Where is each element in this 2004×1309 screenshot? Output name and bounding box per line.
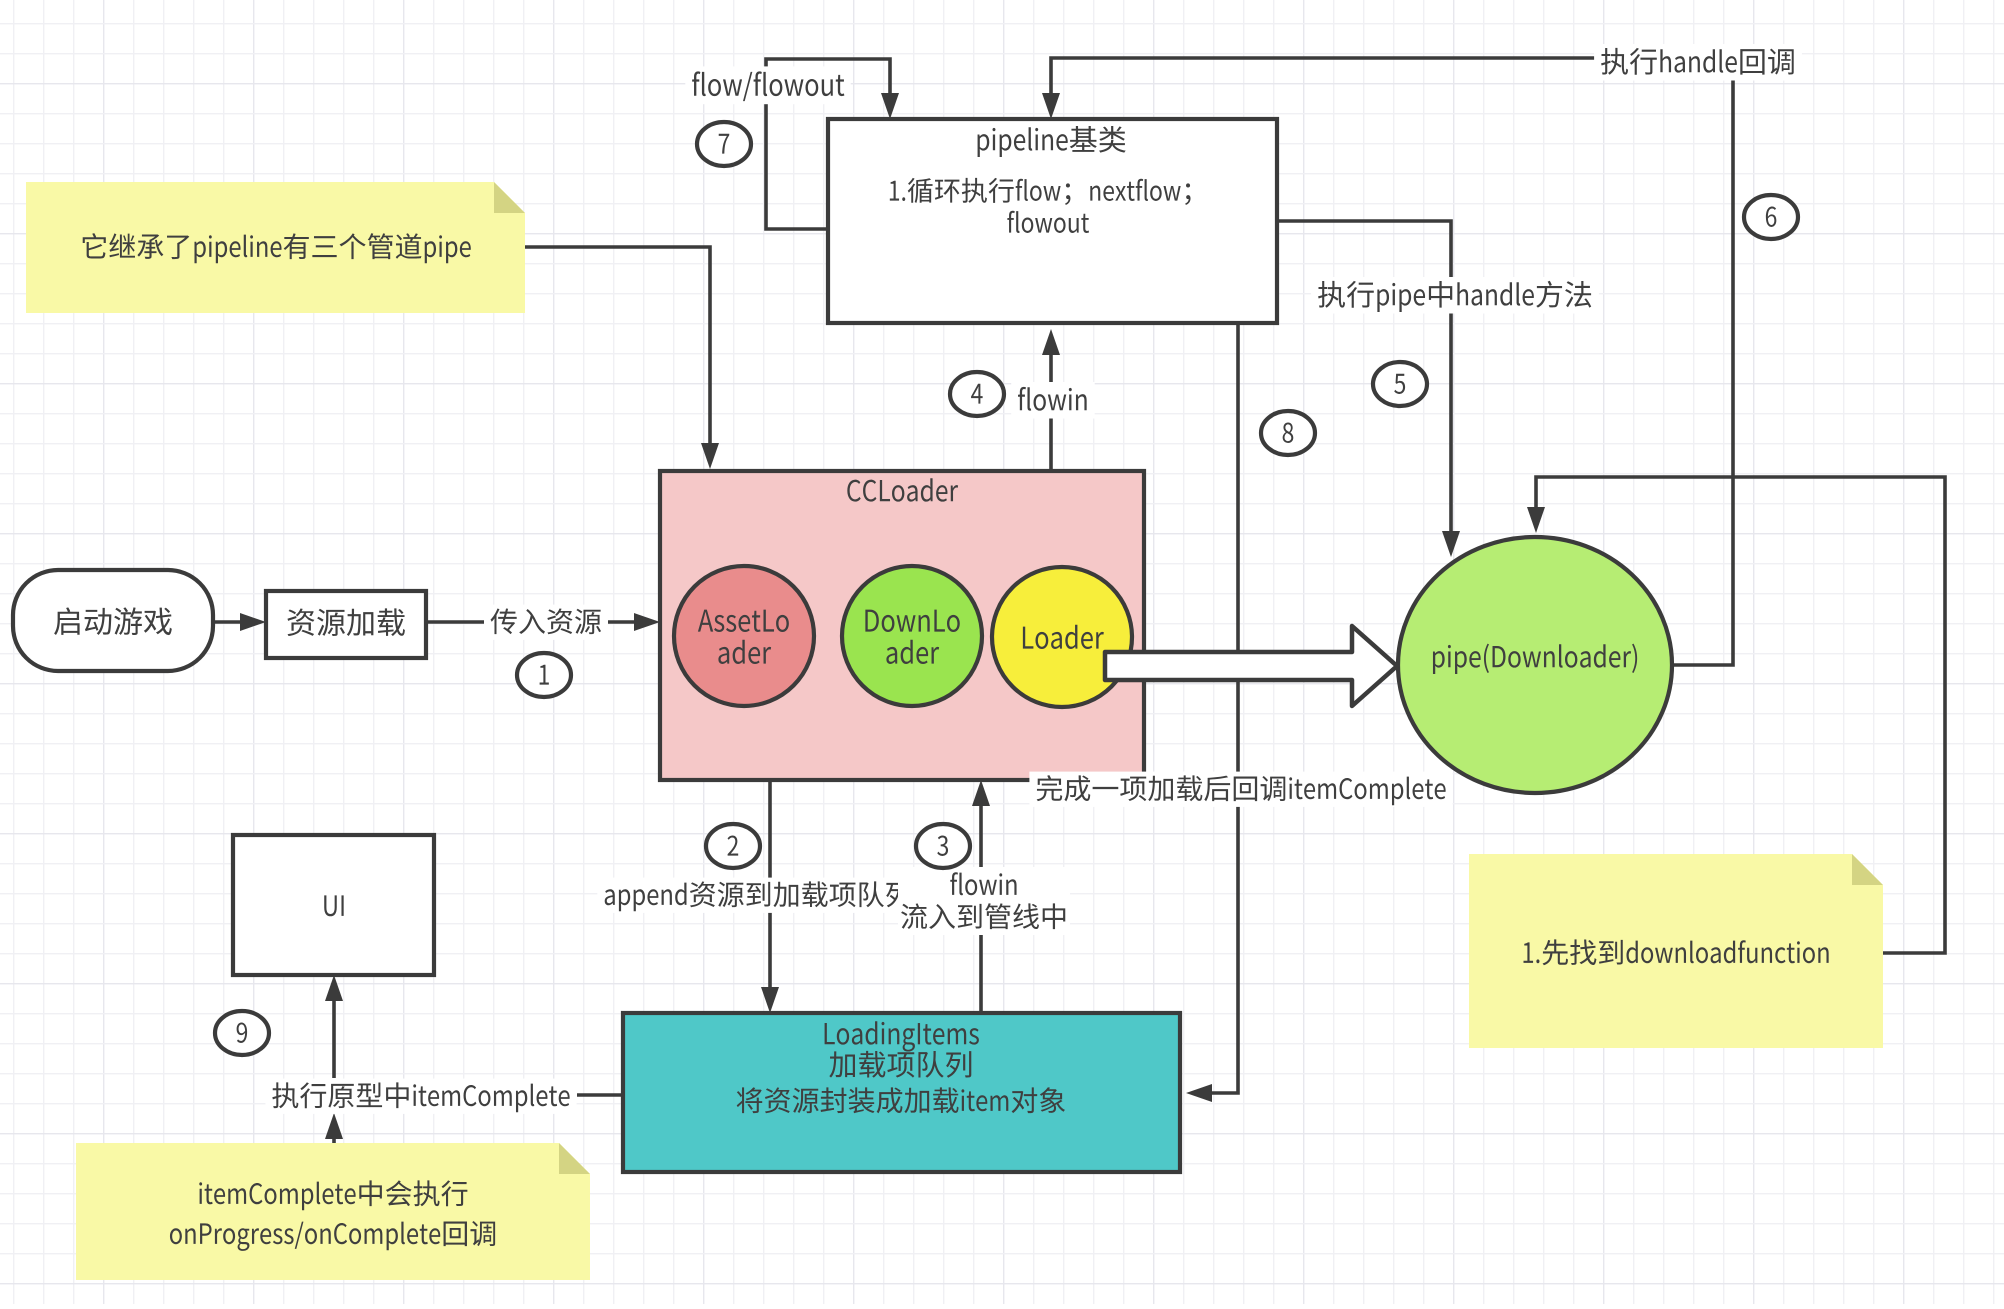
wire: label to LoadingItems left (577, 1093, 623, 1097)
label 完成一项加载后回调itemComplete (1029, 772, 1452, 807)
note3 1.先找到downloadfunction (1469, 854, 1883, 1048)
wire: note1 to CCLoader top (525, 247, 710, 449)
box CCLoader (660, 471, 1144, 780)
box LoadingItems (623, 1013, 1180, 1172)
label 传入资源 (484, 605, 608, 640)
box UI (233, 835, 434, 975)
circle pipe(Downloader) (1398, 537, 1672, 793)
box pipeline基类 (828, 119, 1277, 323)
label flowin (4) (1011, 382, 1094, 419)
node step 6 (1744, 195, 1798, 239)
label flow/flowout (685, 66, 850, 104)
wire: flowin CCLoader to pipeline (4) (1049, 349, 1053, 471)
node step 5 (1373, 362, 1427, 406)
wire: note2 to label (9) lower segment (332, 1133, 336, 1143)
node step 4 (950, 372, 1004, 416)
node step 8 (1261, 411, 1315, 455)
node step 2 (706, 824, 760, 868)
note2 itemComplete中会执行... (76, 1143, 590, 1280)
wire: 执行原型中itemComplete to UI (9) upper segment (332, 995, 336, 1078)
wire: flow/flowout loop (7) (766, 59, 890, 229)
wire: 资源加载 to CCLoader (传入资源) (426, 620, 638, 624)
wire: LoadingItems to CCLoader flowin (3) (979, 800, 983, 1013)
label flowin 流入到管线中 (3) (898, 867, 1070, 935)
note1 它继承了pipeline有三个管道pipe (26, 182, 525, 313)
label 执行原型中itemComplete (265, 1079, 576, 1114)
circle AssetLoader (674, 566, 814, 706)
node step 3 (916, 824, 970, 868)
wire: 启动游戏 to 资源加载 (213, 620, 244, 624)
wire: 执行handle回调 from pipe circle to pipeline top (6) (1051, 58, 1733, 665)
wire: pipeline right to pipe circle (5) 执行pipe中handle方法 (1277, 221, 1451, 537)
node 启动游戏 (rounded) (13, 570, 213, 671)
node step 9 (215, 1011, 269, 1055)
wire: CCLoader to LoadingItems (2) (768, 780, 772, 993)
big white arrow Loader to pipe(Downloader) (1105, 626, 1397, 706)
box 资源加载 (266, 591, 426, 658)
label append资源到加载项队列 (597, 878, 918, 913)
label 执行pipe中handle方法 (1311, 277, 1599, 314)
circle Loader (992, 567, 1132, 707)
node step 7 (697, 122, 751, 166)
circle DownLoader (842, 566, 982, 706)
wire: pipeline bottom to LoadingItems (8) (1206, 323, 1238, 1093)
wire: note3 loop into pipe circle top (1536, 477, 1945, 953)
node step 1 (517, 653, 571, 697)
label 执行handle回调 (1594, 44, 1802, 81)
